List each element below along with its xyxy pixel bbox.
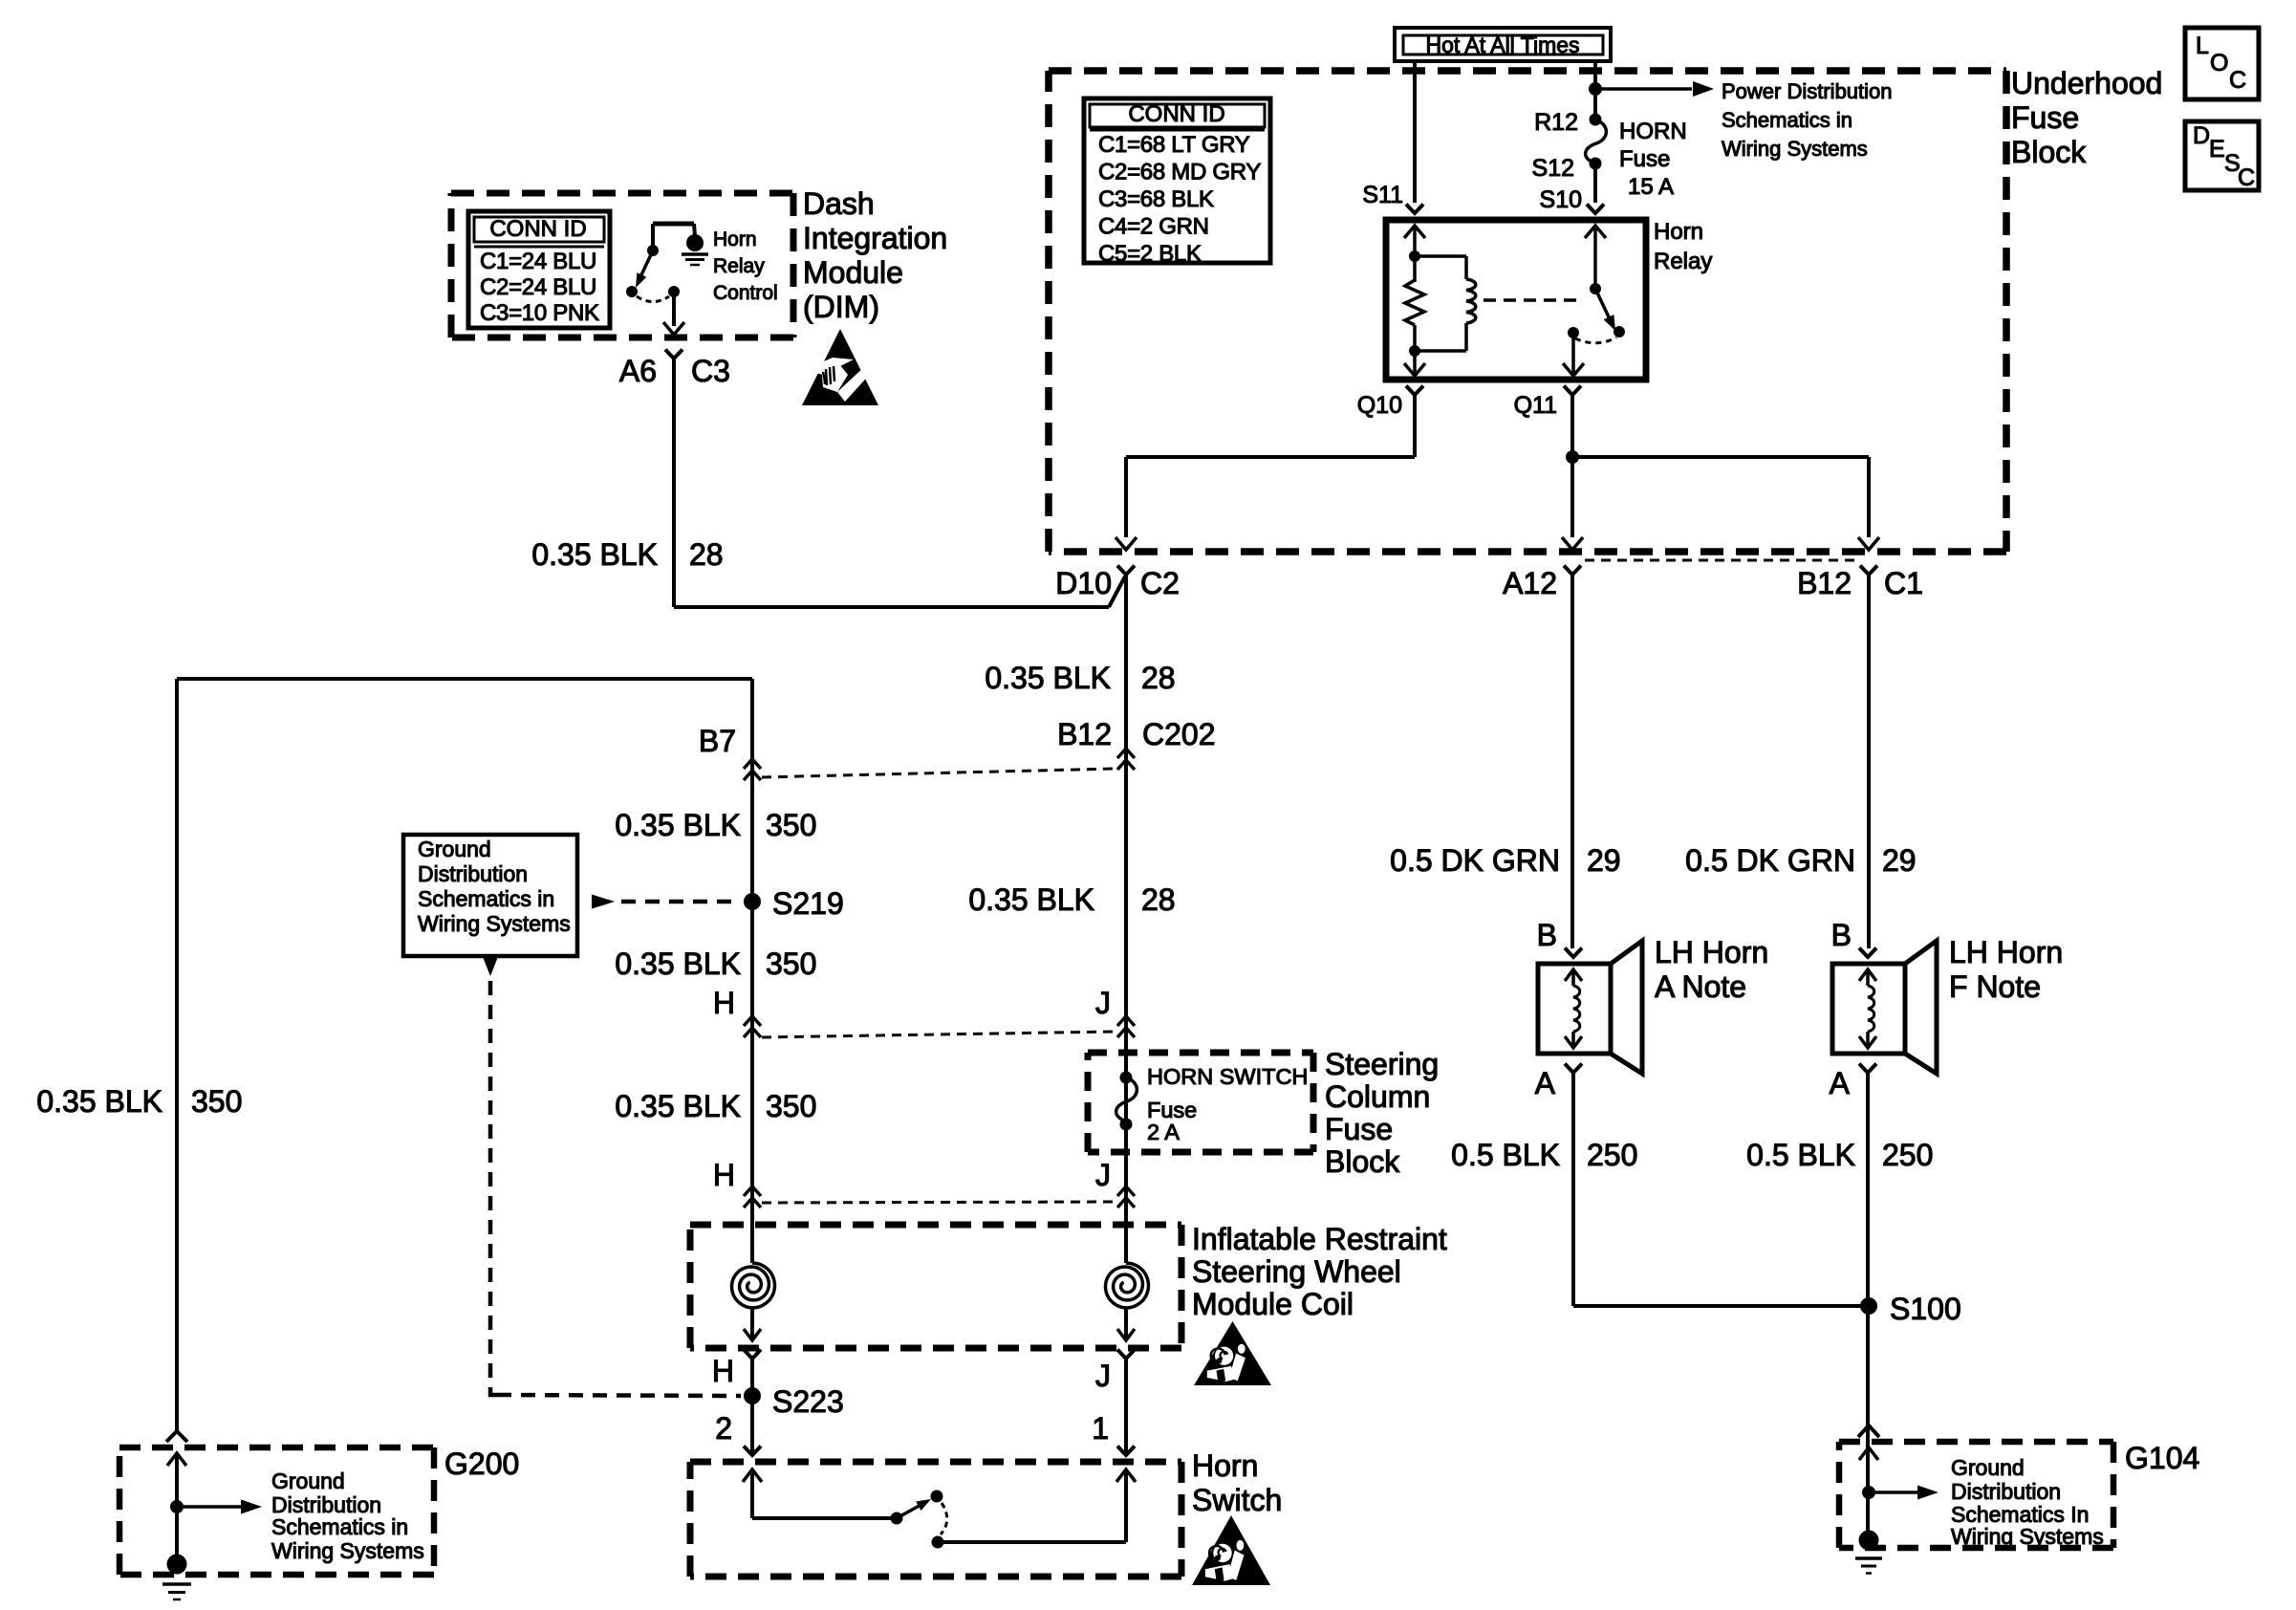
svg-text:C3: C3 — [691, 354, 730, 388]
svg-text:A: A — [1535, 1066, 1556, 1100]
svg-text:HORN SWITCH: HORN SWITCH — [1147, 1064, 1308, 1089]
svg-text:2 A: 2 A — [1147, 1120, 1180, 1144]
svg-text:C2=68 MD GRY: C2=68 MD GRY — [1098, 160, 1261, 185]
svg-text:J: J — [1095, 986, 1111, 1020]
svg-text:Horn: Horn — [1192, 1448, 1258, 1483]
svg-text:C: C — [2238, 164, 2255, 191]
svg-text:S11: S11 — [1362, 182, 1403, 208]
svg-text:Ground: Ground — [1951, 1455, 2025, 1480]
svg-text:D: D — [2193, 122, 2210, 149]
svg-text:G200: G200 — [444, 1447, 519, 1481]
svg-text:350: 350 — [766, 808, 816, 842]
svg-text:Q10: Q10 — [1357, 392, 1402, 419]
svg-text:28: 28 — [1141, 661, 1176, 695]
svg-text:350: 350 — [766, 1089, 816, 1123]
svg-text:O: O — [2210, 50, 2228, 76]
svg-text:G104: G104 — [2125, 1441, 2199, 1475]
svg-text:C: C — [2229, 67, 2246, 94]
svg-text:S10: S10 — [1540, 186, 1582, 213]
svg-text:LH Horn: LH Horn — [1655, 935, 1768, 969]
svg-text:Schematics in: Schematics in — [271, 1514, 408, 1539]
svg-text:Wiring Systems: Wiring Systems — [1951, 1524, 2104, 1549]
svg-text:R12: R12 — [1534, 109, 1578, 136]
svg-text:250: 250 — [1587, 1138, 1637, 1172]
svg-text:Steering: Steering — [1325, 1047, 1439, 1081]
svg-text:Ground: Ground — [418, 837, 491, 861]
svg-text:Module: Module — [803, 255, 903, 290]
svg-text:C202: C202 — [1142, 717, 1216, 751]
svg-text:C1=24 BLU: C1=24 BLU — [480, 249, 596, 274]
svg-text:C2: C2 — [1140, 566, 1180, 600]
svg-text:0.35 BLK: 0.35 BLK — [531, 537, 658, 572]
svg-text:F Note: F Note — [1949, 969, 2041, 1004]
svg-text:Q11: Q11 — [1514, 392, 1557, 419]
svg-text:0.35 BLK: 0.35 BLK — [615, 946, 741, 981]
svg-text:Inflatable Restraint: Inflatable Restraint — [1192, 1222, 1447, 1256]
svg-text:H: H — [713, 1158, 735, 1192]
svg-text:C4=2 GRN: C4=2 GRN — [1098, 214, 1209, 240]
svg-text:Horn: Horn — [713, 228, 757, 250]
svg-text:0.5 BLK: 0.5 BLK — [1746, 1138, 1855, 1172]
svg-text:Column: Column — [1325, 1079, 1430, 1114]
svg-text:Block: Block — [2011, 135, 2087, 169]
svg-text:H: H — [712, 1354, 734, 1388]
svg-text:C5=2 BLK: C5=2 BLK — [1098, 241, 1202, 267]
svg-text:C2=24 BLU: C2=24 BLU — [480, 274, 596, 300]
svg-text:Control: Control — [713, 282, 778, 304]
svg-text:LH Horn: LH Horn — [1949, 935, 2063, 969]
svg-text:Fuse: Fuse — [1325, 1112, 1393, 1146]
svg-text:B: B — [1537, 918, 1557, 952]
svg-text:Dash: Dash — [803, 186, 875, 221]
svg-text:HORN: HORN — [1619, 119, 1687, 144]
svg-text:Underhood: Underhood — [2011, 66, 2162, 100]
svg-text:0.5 DK GRN: 0.5 DK GRN — [1685, 843, 1855, 878]
svg-text:C3=68 BLK: C3=68 BLK — [1098, 186, 1214, 212]
svg-text:A Note: A Note — [1655, 969, 1746, 1004]
svg-text:Hot At All Times: Hot At All Times — [1425, 33, 1579, 57]
svg-text:2: 2 — [715, 1411, 732, 1446]
svg-text:E: E — [2209, 136, 2225, 163]
svg-text:Switch: Switch — [1192, 1483, 1282, 1517]
svg-text:28: 28 — [1141, 882, 1176, 917]
svg-text:15 A: 15 A — [1628, 174, 1674, 200]
svg-text:Power Distribution: Power Distribution — [1722, 79, 1893, 103]
svg-text:H: H — [713, 986, 735, 1020]
svg-text:Integration: Integration — [803, 221, 947, 255]
svg-text:(DIM): (DIM) — [803, 290, 879, 324]
svg-text:C1: C1 — [1884, 566, 1923, 600]
svg-text:S223: S223 — [772, 1384, 844, 1419]
svg-text:Fuse: Fuse — [2011, 100, 2079, 135]
svg-text:A: A — [1830, 1066, 1851, 1100]
svg-text:Module Coil: Module Coil — [1192, 1287, 1354, 1321]
svg-text:29: 29 — [1587, 843, 1621, 878]
svg-text:B: B — [1831, 918, 1852, 952]
svg-text:J: J — [1095, 1158, 1111, 1192]
svg-text:S100: S100 — [1890, 1292, 1961, 1326]
svg-text:Relay: Relay — [1654, 249, 1712, 274]
svg-text:Ground: Ground — [271, 1469, 345, 1493]
svg-text:Fuse: Fuse — [1619, 146, 1670, 172]
svg-text:0.35 BLK: 0.35 BLK — [615, 808, 741, 842]
svg-text:Distribution: Distribution — [418, 861, 528, 886]
svg-text:0.35 BLK: 0.35 BLK — [615, 1089, 741, 1123]
svg-text:A6: A6 — [619, 354, 657, 388]
svg-text:0.5 DK GRN: 0.5 DK GRN — [1390, 843, 1560, 878]
svg-text:D10: D10 — [1055, 566, 1112, 600]
svg-text:Wiring Systems: Wiring Systems — [418, 911, 571, 936]
svg-text:Schematics in: Schematics in — [418, 886, 554, 911]
svg-text:CONN ID: CONN ID — [1128, 101, 1224, 127]
svg-text:0.35 BLK: 0.35 BLK — [968, 882, 1094, 917]
svg-text:Wiring Systems: Wiring Systems — [271, 1538, 424, 1563]
svg-text:A12: A12 — [1503, 566, 1557, 600]
svg-text:B12: B12 — [1057, 717, 1112, 751]
svg-text:0.35 BLK: 0.35 BLK — [985, 661, 1111, 695]
svg-text:29: 29 — [1882, 843, 1917, 878]
svg-text:B7: B7 — [699, 724, 736, 758]
svg-text:B12: B12 — [1797, 566, 1852, 600]
svg-text:C1=68 LT GRY: C1=68 LT GRY — [1098, 132, 1250, 158]
svg-text:1: 1 — [1092, 1411, 1109, 1446]
svg-text:28: 28 — [689, 537, 724, 572]
svg-text:L: L — [2196, 33, 2209, 59]
svg-text:Steering Wheel: Steering Wheel — [1192, 1254, 1401, 1289]
svg-text:350: 350 — [766, 946, 816, 981]
svg-text:Block: Block — [1325, 1144, 1400, 1179]
svg-text:0.35 BLK: 0.35 BLK — [36, 1084, 162, 1119]
svg-text:Distribution: Distribution — [1951, 1479, 2061, 1504]
svg-text:S12: S12 — [1532, 155, 1574, 182]
svg-text:Wiring Systems: Wiring Systems — [1722, 137, 1868, 161]
svg-text:250: 250 — [1882, 1138, 1933, 1172]
svg-text:C3=10 PNK: C3=10 PNK — [480, 300, 599, 326]
svg-text:J: J — [1095, 1359, 1111, 1393]
svg-text:Schematics in: Schematics in — [1722, 108, 1852, 132]
svg-text:Horn: Horn — [1654, 219, 1703, 245]
svg-text:350: 350 — [191, 1084, 242, 1119]
svg-text:0.5 BLK: 0.5 BLK — [1451, 1138, 1560, 1172]
svg-text:S219: S219 — [772, 886, 844, 921]
svg-text:CONN ID: CONN ID — [489, 216, 586, 242]
svg-text:Relay: Relay — [713, 255, 765, 277]
